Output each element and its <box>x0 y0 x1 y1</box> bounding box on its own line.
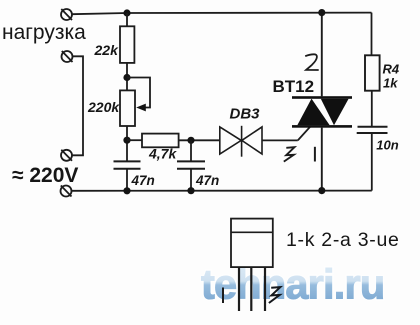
svg-text:22k: 22k <box>94 42 120 58</box>
wire triac anode 2 <box>321 13 323 97</box>
svg-text:1-k 2-a 3-ue: 1-k 2-a 3-ue <box>286 229 400 251</box>
label 4,7k <box>148 146 177 162</box>
wire C2 top lead <box>190 140 192 161</box>
wire C1 bottom lead <box>126 169 128 191</box>
package pin label 3 <box>269 287 280 303</box>
wire 22k to pot <box>126 63 128 91</box>
node junction B <box>123 137 130 144</box>
svg-text:47n: 47n <box>195 173 219 188</box>
label 220k <box>87 99 120 115</box>
label R4 <box>383 62 400 77</box>
wire node B to R3 <box>127 139 142 141</box>
node triac top junction <box>318 9 325 16</box>
terminal X4 <box>61 186 72 197</box>
pin label 1 <box>314 147 316 162</box>
svg-text:10n: 10n <box>376 138 398 153</box>
diac DB3 <box>220 126 262 157</box>
wire triac anode 1 <box>321 128 323 191</box>
package TO-220 outline <box>231 219 273 268</box>
wire pot to node B <box>126 126 128 161</box>
package pin label 1 <box>222 288 224 304</box>
terminal X3 <box>61 150 72 161</box>
label DB3 <box>230 105 261 122</box>
potentiometer wiper arrow <box>136 104 146 112</box>
package pin 2 <box>250 267 252 311</box>
node junction A <box>123 74 130 81</box>
label нагрузка <box>2 21 86 44</box>
node C1 bottom junction <box>123 187 130 194</box>
package tab line <box>231 231 273 233</box>
wire X2 to X3 loop <box>73 56 84 155</box>
node C2 bottom junction <box>187 187 194 194</box>
wire 22k top lead <box>126 13 128 26</box>
label 22k <box>94 42 120 58</box>
svg-text:1k: 1k <box>383 76 398 91</box>
svg-text:4,7k: 4,7k <box>148 146 177 162</box>
wire right drop to R4 <box>371 13 373 56</box>
pin label 2 <box>305 54 319 70</box>
svg-text:220k: 220k <box>87 99 120 115</box>
svg-text:BT12: BT12 <box>273 77 315 96</box>
svg-text:≈ 220V: ≈ 220V <box>12 164 78 187</box>
label 47n second <box>195 173 219 188</box>
potentiometer wiper wire <box>127 78 150 108</box>
svg-text:нагрузка: нагрузка <box>2 21 86 44</box>
wire R4 top lead <box>371 54 373 56</box>
label 47n first <box>131 173 155 188</box>
wire diac to gate <box>262 139 298 141</box>
triac BT12 <box>292 96 352 128</box>
label 1-k 2-a 3-ue <box>286 229 400 251</box>
terminal X2 <box>62 51 73 62</box>
package pin 3 <box>264 267 266 311</box>
resistor 22k <box>120 26 134 63</box>
wire C2 bottom lead <box>190 169 192 191</box>
capacitor C2 47n <box>177 160 205 162</box>
node triac bottom junction <box>318 187 325 194</box>
wire R3 to diac <box>179 139 220 141</box>
label BT12 <box>273 77 315 96</box>
watermark tehnari.ru <box>201 261 384 308</box>
wire R4 to C3 <box>371 91 373 127</box>
wire top rail <box>72 13 372 15</box>
svg-text:R4: R4 <box>383 62 400 77</box>
svg-text:DB3: DB3 <box>230 105 261 122</box>
capacitor C1 47n <box>114 160 141 162</box>
label ≈ 220V <box>12 164 78 187</box>
wire gate diagonal <box>298 127 310 140</box>
pin label 3 gate <box>284 147 295 161</box>
potentiometer 220k body <box>120 90 135 126</box>
resistor R4 <box>365 55 380 90</box>
label 10n <box>376 138 398 153</box>
svg-text:47n: 47n <box>131 173 155 188</box>
wire bottom rail <box>72 190 372 192</box>
wire C3 bottom lead <box>371 133 373 191</box>
terminal X1 <box>61 9 72 20</box>
label 1k <box>383 76 398 91</box>
node top rail junction <box>123 9 130 16</box>
svg-text:tehnari.ru: tehnari.ru <box>201 261 384 308</box>
package pin 1 <box>238 267 240 311</box>
node junction C <box>187 137 194 144</box>
resistor 4,7k <box>142 134 179 148</box>
capacitor C3 10n <box>358 126 388 128</box>
